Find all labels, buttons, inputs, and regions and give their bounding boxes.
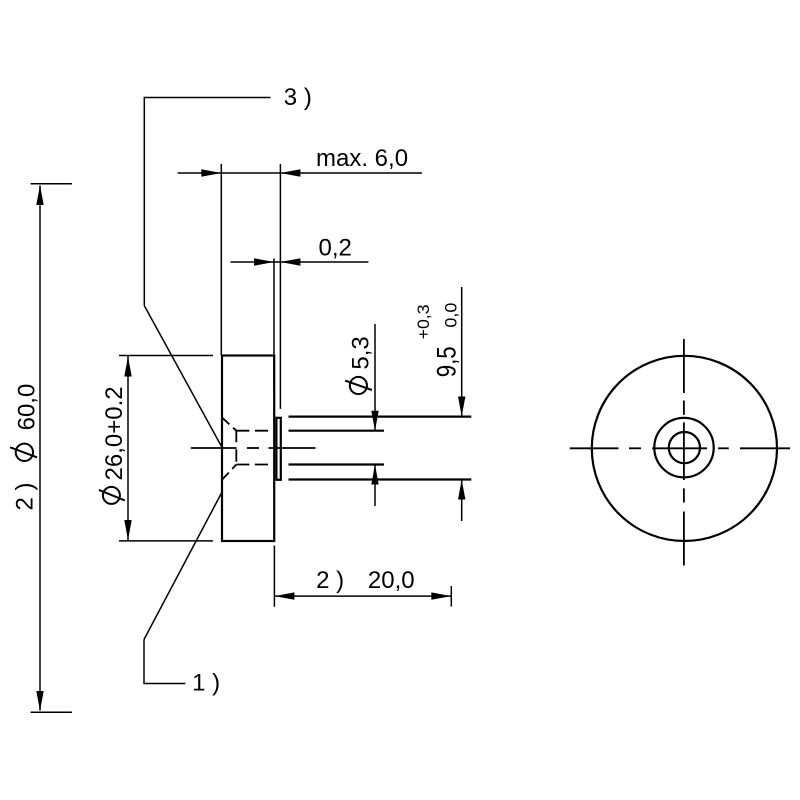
extension line plate right face — [279, 164, 281, 409]
svg-text:2 ): 2 ) — [12, 482, 39, 510]
front view hub circle — [654, 418, 713, 477]
hidden countersink cone top — [222, 418, 236, 431]
dimension 0,2 line — [231, 261, 369, 263]
arrow 20,0 right — [431, 592, 451, 599]
front view horizontal center line — [570, 447, 619, 449]
arrow 20,0 left — [274, 592, 294, 599]
dia symbol for d26 — [103, 487, 120, 504]
leader 1) vertical — [143, 640, 145, 685]
stem bore bottom line — [289, 463, 385, 465]
extension line plate left face — [273, 259, 275, 390]
leader 3) vertical — [143, 97, 145, 306]
hidden hole top line — [236, 430, 273, 432]
stem outer top line — [289, 416, 472, 418]
dimension d60 top tick — [31, 183, 72, 185]
arrow 0,2 right — [280, 258, 300, 265]
20,0 left extension line — [273, 546, 275, 607]
dimension 9,5 line top — [461, 287, 463, 416]
arrow 9,5 bottom — [458, 480, 465, 500]
stem bore top line — [289, 430, 385, 432]
hidden hole bottom line — [236, 464, 273, 466]
svg-text:2 ): 2 ) — [316, 567, 344, 594]
dimension d5,3 line bottom — [374, 465, 376, 506]
svg-text:max. 6,0: max. 6,0 — [316, 145, 408, 172]
front view outer circle — [592, 356, 777, 541]
arrow d5,3 top — [371, 411, 378, 431]
svg-text:+0,3: +0,3 — [414, 304, 433, 339]
dimension max 6,0 line — [178, 172, 422, 174]
leader 1) diagonal — [144, 493, 222, 640]
leader 3) horizontal — [144, 97, 270, 99]
svg-text:26,0+0.2: 26,0+0.2 — [101, 386, 128, 480]
dimension d5,3 line top — [374, 324, 376, 430]
arrow d26 bottom — [124, 520, 131, 540]
arrow d26 top — [124, 357, 131, 377]
arrow 9,5 top — [458, 397, 465, 417]
20,0 right tick — [450, 586, 452, 607]
arrow d60 bottom — [36, 691, 43, 711]
svg-text:9,5: 9,5 — [431, 346, 461, 377]
hidden countersink transition vertical — [235, 430, 237, 466]
arrow d5,3 bottom — [371, 465, 378, 485]
leader 3) diagonal — [144, 306, 221, 447]
svg-text:0,0: 0,0 — [442, 303, 461, 328]
front view bore circle — [669, 432, 700, 463]
dimension 20,0 line — [274, 595, 451, 597]
front view vertical center line — [683, 339, 685, 393]
arrow d60 top — [36, 185, 43, 205]
side view center line — [191, 447, 237, 449]
disc body side view — [222, 356, 274, 542]
dimension d60 bottom tick — [31, 711, 72, 713]
arrow 0,2 left — [254, 258, 274, 265]
svg-text:3 ): 3 ) — [284, 84, 312, 111]
dimension d60 line — [39, 186, 41, 711]
svg-text:60,0: 60,0 — [14, 384, 41, 431]
dimension 9,5 line bottom — [461, 480, 463, 522]
arrow max6 left — [201, 169, 221, 176]
stem outer bottom line — [289, 478, 472, 480]
svg-text:1 ): 1 ) — [192, 669, 220, 696]
arrow max6 right — [280, 169, 300, 176]
extension line disc left face — [220, 164, 222, 356]
svg-text:20,0: 20,0 — [368, 567, 415, 594]
d26 top extension line — [119, 355, 213, 357]
d26 bottom extension line — [119, 540, 213, 542]
svg-text:0,2: 0,2 — [319, 234, 352, 261]
rubber plate 0,2 side view — [276, 418, 280, 480]
hidden countersink cone bottom — [222, 465, 236, 480]
leader 1) horizontal — [144, 683, 185, 685]
dia symbol for d60 — [16, 444, 33, 461]
svg-text:5,3: 5,3 — [347, 336, 374, 369]
dimension d26 line — [127, 356, 129, 541]
dia symbol for d5,3 — [350, 377, 367, 394]
